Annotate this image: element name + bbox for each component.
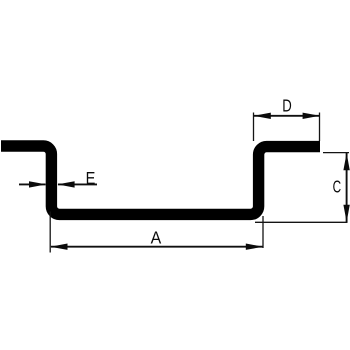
dimension C line (346, 153, 348, 222)
svg-text:D: D (282, 96, 292, 116)
arrowhead E left (points right) (29, 181, 46, 187)
dimension A extension line right (262, 216, 264, 248)
dimension C extension line bottom (255, 221, 348, 223)
arrowhead A right (246, 244, 263, 250)
profile cross-section (bent sheet) (1, 146, 320, 214)
dimension A extension line left (49, 212, 51, 253)
dimension D line (254, 115, 320, 117)
arrowhead C bottom (343, 205, 349, 222)
arrowhead D right (303, 113, 320, 119)
arrowhead E right (points left) (57, 181, 74, 187)
arrowhead D left (254, 113, 271, 119)
arrowhead A left (50, 244, 67, 250)
svg-text:C: C (333, 177, 342, 197)
dimension A line (51, 246, 263, 248)
svg-text:E: E (86, 168, 96, 188)
dimension E leader right (58, 183, 97, 185)
svg-text:A: A (151, 228, 162, 248)
dimension D extension line left (253, 113, 255, 142)
dimension E leader left (19, 183, 46, 185)
arrowhead C top (343, 153, 349, 170)
dimension C extension line top (323, 152, 349, 154)
dimension D extension line right (319, 113, 321, 142)
